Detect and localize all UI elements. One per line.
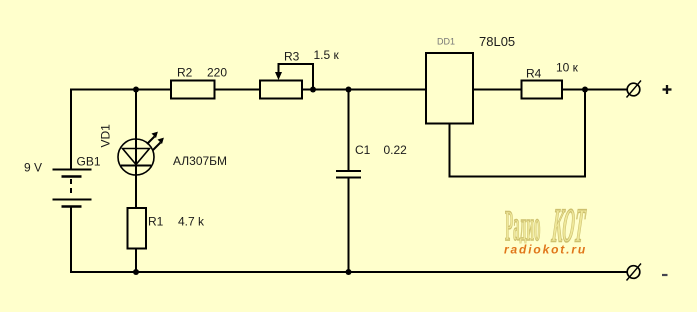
svg-text:GB1: GB1 [77, 155, 101, 169]
svg-text:1.5 к: 1.5 к [314, 48, 340, 62]
svg-text:10 к: 10 к [556, 61, 579, 75]
svg-text:C1: C1 [355, 143, 371, 157]
svg-text:VD1: VD1 [99, 124, 113, 148]
svg-text:R2: R2 [177, 66, 193, 80]
svg-text:4.7 k: 4.7 k [178, 215, 205, 229]
svg-text:0.22: 0.22 [384, 143, 408, 157]
svg-text:DD1: DD1 [437, 37, 455, 47]
svg-text:9 V: 9 V [24, 161, 42, 175]
svg-text:78L05: 78L05 [479, 34, 515, 49]
svg-text:АЛ307БМ: АЛ307БМ [173, 154, 227, 168]
svg-text:R3: R3 [284, 50, 300, 64]
svg-text:R1: R1 [148, 215, 164, 229]
svg-text:radiokot.ru: radiokot.ru [504, 243, 587, 257]
svg-text:220: 220 [207, 66, 227, 80]
svg-text:R4: R4 [526, 67, 542, 81]
